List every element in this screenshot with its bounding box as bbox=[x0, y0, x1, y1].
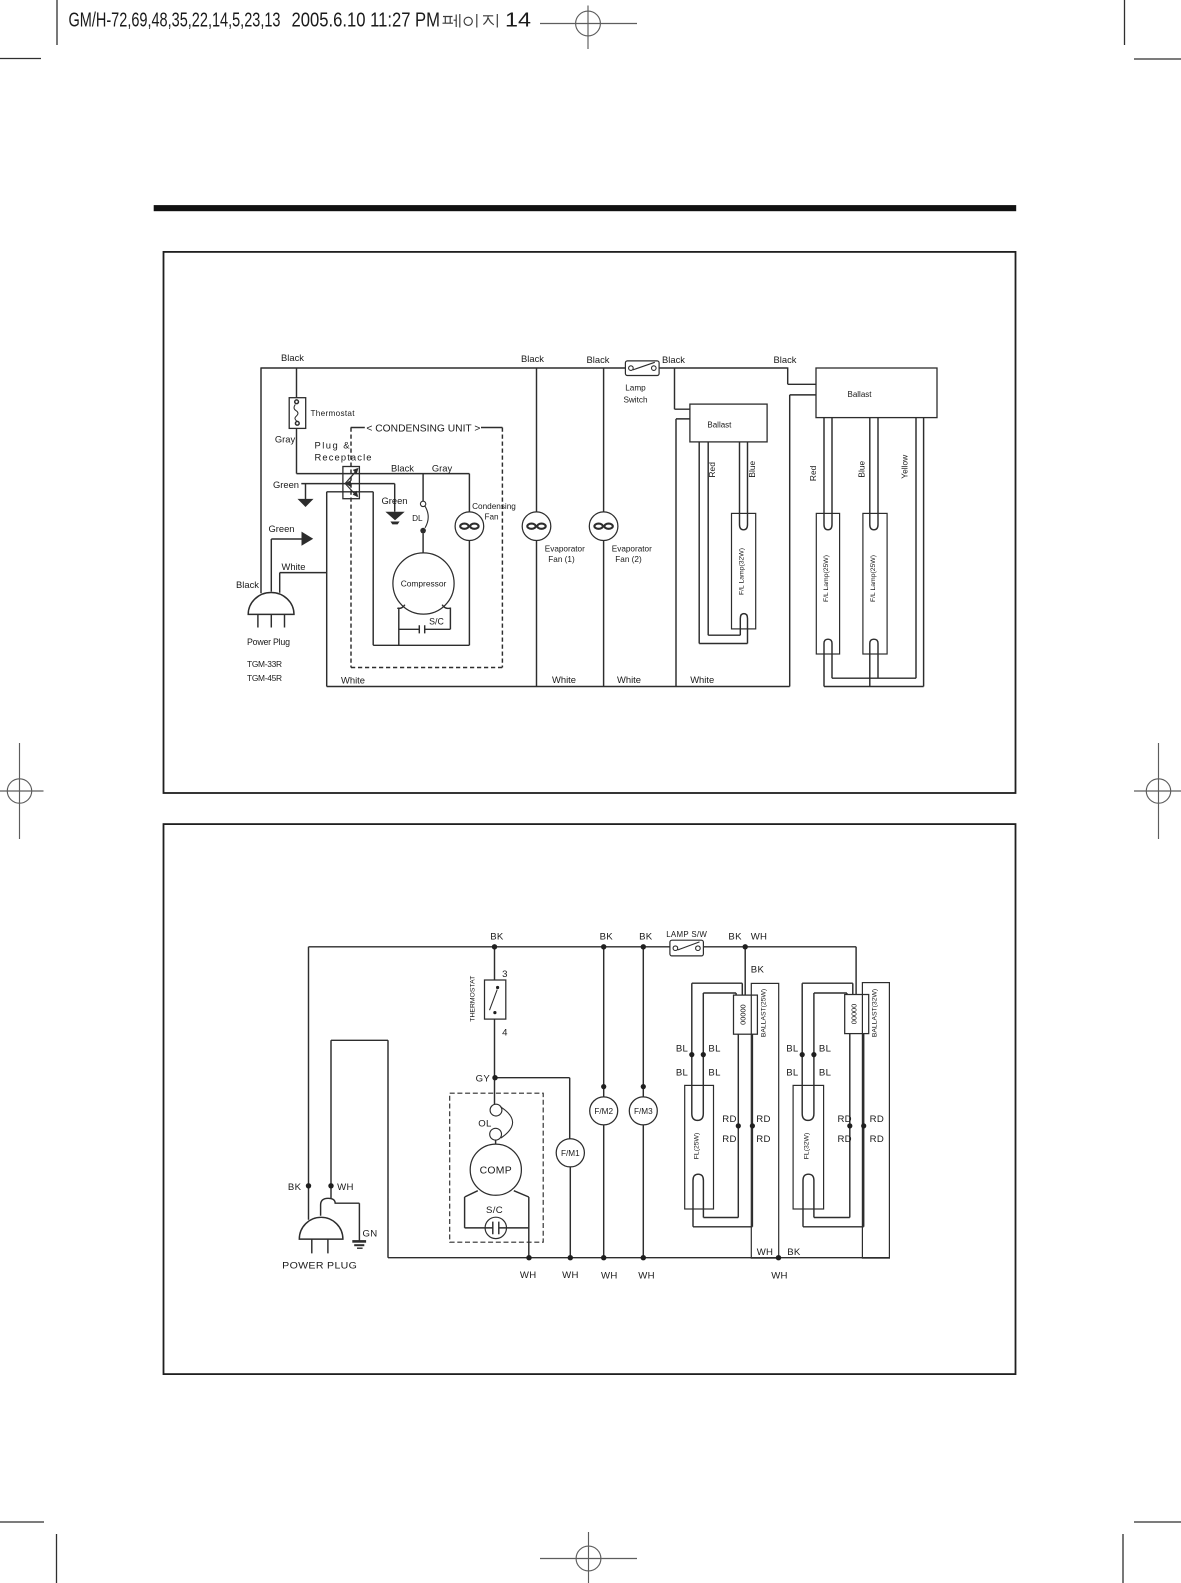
svg-text:White: White bbox=[690, 674, 714, 685]
svg-text:00000: 00000 bbox=[738, 1004, 747, 1025]
svg-text:F/L Lamp(25W): F/L Lamp(25W) bbox=[823, 555, 830, 602]
svg-text:Evaporator: Evaporator bbox=[545, 545, 585, 554]
svg-text:White: White bbox=[552, 674, 576, 685]
svg-text:Blue: Blue bbox=[747, 460, 757, 477]
svg-text:WH: WH bbox=[520, 1270, 537, 1281]
svg-text:Plug &: Plug & bbox=[315, 440, 351, 451]
svg-text:RD: RD bbox=[870, 1114, 884, 1125]
svg-text:TGM-45R: TGM-45R bbox=[247, 673, 282, 683]
svg-text:WH: WH bbox=[771, 1271, 788, 1282]
svg-text:F/M1: F/M1 bbox=[561, 1149, 580, 1158]
svg-text:TGM-33R: TGM-33R bbox=[247, 659, 282, 669]
svg-text:Black: Black bbox=[391, 463, 414, 474]
svg-text:White: White bbox=[617, 674, 641, 685]
svg-text:RD: RD bbox=[870, 1134, 884, 1145]
svg-text:2005.6.10 11:27 PM: 2005.6.10 11:27 PM bbox=[292, 10, 441, 32]
svg-text:BALLAST(25W): BALLAST(25W) bbox=[760, 989, 767, 1037]
svg-text:Black: Black bbox=[774, 354, 797, 365]
svg-text:RD: RD bbox=[722, 1114, 736, 1125]
svg-text:Condensing: Condensing bbox=[472, 502, 516, 511]
svg-text:Power Plug: Power Plug bbox=[247, 637, 290, 647]
svg-text:Gray: Gray bbox=[432, 463, 453, 474]
svg-text:Black: Black bbox=[662, 354, 685, 365]
svg-text:THERMOSTAT: THERMOSTAT bbox=[470, 976, 477, 1022]
svg-text:Black: Black bbox=[521, 353, 544, 364]
svg-text:RD: RD bbox=[756, 1114, 770, 1125]
svg-text:BK: BK bbox=[600, 932, 614, 943]
svg-text:Blue: Blue bbox=[856, 460, 866, 477]
svg-text:Gray: Gray bbox=[275, 434, 296, 445]
svg-text:Lamp: Lamp bbox=[625, 384, 646, 393]
svg-text:BL: BL bbox=[819, 1043, 832, 1054]
svg-text:F/L Lamp(25W): F/L Lamp(25W) bbox=[870, 555, 877, 602]
svg-text:GY: GY bbox=[476, 1074, 491, 1085]
svg-text:WH: WH bbox=[757, 1247, 774, 1258]
svg-text:Yellow: Yellow bbox=[900, 454, 910, 479]
svg-text:WH: WH bbox=[601, 1271, 618, 1282]
svg-text:Evaporator: Evaporator bbox=[612, 545, 652, 554]
svg-text:WH: WH bbox=[751, 932, 768, 943]
svg-text:GM/H-72,69,48,35,22,14,5,23,13: GM/H-72,69,48,35,22,14,5,23,13 bbox=[69, 10, 281, 32]
svg-text:Ballast: Ballast bbox=[707, 420, 732, 429]
svg-text:< CONDENSING UNIT >: < CONDENSING UNIT > bbox=[366, 424, 480, 435]
svg-text:White: White bbox=[282, 561, 306, 572]
svg-text:Compressor: Compressor bbox=[401, 579, 447, 589]
svg-text:Thermostat: Thermostat bbox=[311, 409, 356, 418]
svg-text:Receptacle: Receptacle bbox=[315, 451, 372, 462]
svg-text:BK: BK bbox=[787, 1247, 801, 1258]
svg-text:LAMP S/W: LAMP S/W bbox=[666, 930, 707, 939]
svg-text:OL: OL bbox=[478, 1118, 492, 1129]
svg-text:Switch: Switch bbox=[623, 396, 648, 405]
svg-text:Green: Green bbox=[381, 495, 407, 506]
svg-text:COMP: COMP bbox=[480, 1166, 512, 1177]
svg-text:RD: RD bbox=[756, 1134, 770, 1145]
svg-text:BL: BL bbox=[676, 1043, 689, 1054]
svg-text:RD: RD bbox=[722, 1134, 736, 1145]
svg-text:S/C: S/C bbox=[429, 616, 444, 626]
svg-text:BL: BL bbox=[819, 1068, 832, 1079]
svg-text:BK: BK bbox=[639, 932, 653, 943]
svg-text:White: White bbox=[341, 675, 365, 686]
svg-text:BL: BL bbox=[708, 1043, 721, 1054]
svg-text:Black: Black bbox=[281, 352, 304, 363]
svg-text:BALLAST(32W): BALLAST(32W) bbox=[872, 989, 879, 1037]
svg-text:BL: BL bbox=[786, 1043, 799, 1054]
svg-text:DL: DL bbox=[412, 514, 423, 523]
svg-text:F/M3: F/M3 bbox=[634, 1107, 653, 1116]
svg-text:Red: Red bbox=[707, 462, 717, 478]
svg-text:3: 3 bbox=[502, 969, 508, 980]
svg-text:BL: BL bbox=[708, 1068, 721, 1079]
svg-text:BL: BL bbox=[786, 1068, 799, 1079]
svg-text:BK: BK bbox=[728, 932, 742, 943]
svg-text:BK: BK bbox=[751, 965, 765, 976]
svg-text:F/L Lamp(32W): F/L Lamp(32W) bbox=[739, 548, 746, 595]
svg-text:FL(32W): FL(32W) bbox=[804, 1133, 811, 1159]
svg-text:4: 4 bbox=[502, 1027, 508, 1038]
svg-text:Ballast: Ballast bbox=[847, 390, 872, 399]
svg-text:Red: Red bbox=[808, 465, 818, 481]
svg-text:Green: Green bbox=[273, 479, 299, 490]
svg-text:Fan (1): Fan (1) bbox=[548, 555, 575, 564]
svg-text:WH: WH bbox=[562, 1270, 579, 1281]
svg-text:BK: BK bbox=[288, 1182, 302, 1193]
svg-text:00000: 00000 bbox=[850, 1004, 859, 1025]
svg-text:S/C: S/C bbox=[486, 1205, 503, 1216]
svg-text:Black: Black bbox=[236, 579, 259, 590]
svg-text:WH: WH bbox=[337, 1182, 354, 1193]
svg-text:Black: Black bbox=[587, 354, 610, 365]
svg-text:WH: WH bbox=[638, 1271, 655, 1282]
svg-text:RD: RD bbox=[837, 1114, 851, 1125]
svg-text:BL: BL bbox=[676, 1068, 689, 1079]
svg-text:Green: Green bbox=[268, 523, 294, 534]
svg-text:14: 14 bbox=[505, 10, 531, 32]
svg-text:POWER PLUG: POWER PLUG bbox=[282, 1260, 357, 1271]
svg-text:Fan: Fan bbox=[484, 513, 499, 522]
svg-text:FL(25W): FL(25W) bbox=[693, 1133, 700, 1159]
svg-text:GN: GN bbox=[363, 1228, 378, 1239]
svg-text:Fan (2): Fan (2) bbox=[615, 555, 642, 564]
svg-text:F/M2: F/M2 bbox=[594, 1107, 613, 1116]
svg-text:BK: BK bbox=[490, 932, 504, 943]
svg-text:RD: RD bbox=[837, 1134, 851, 1145]
